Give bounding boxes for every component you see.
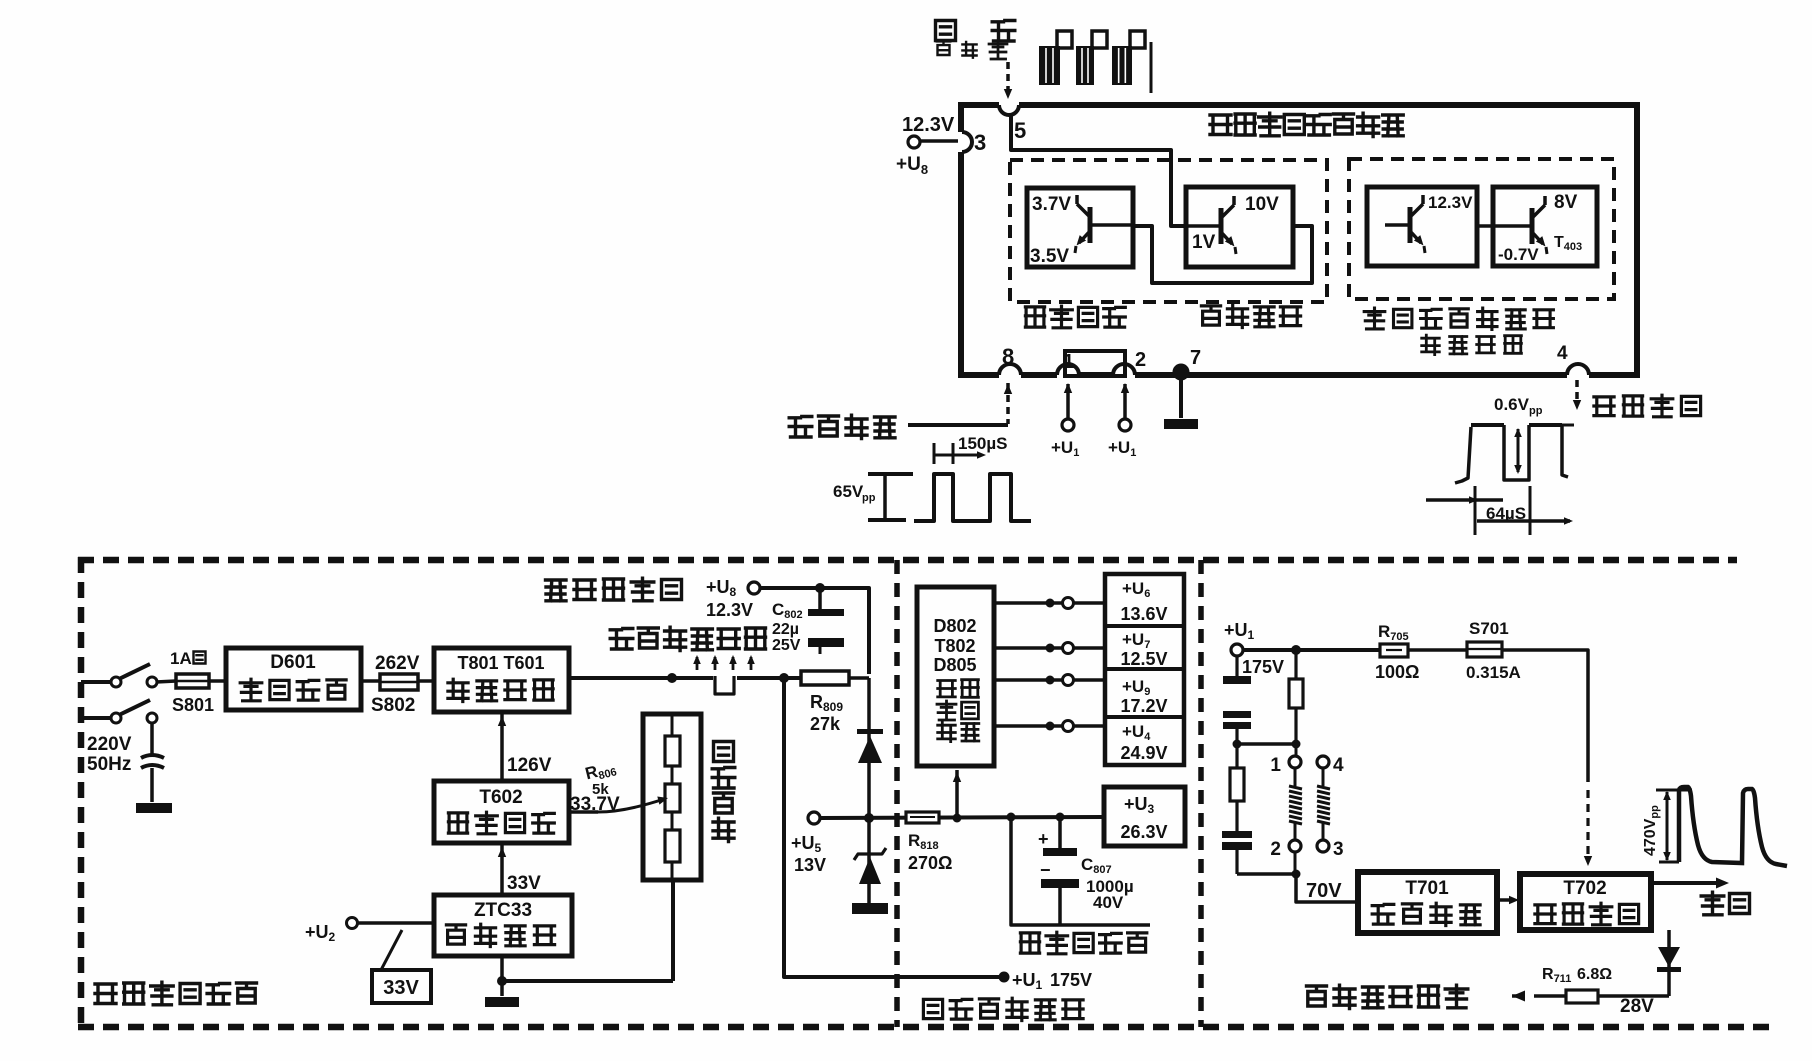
block ZTC33 standard voltage 标准电压: [434, 895, 572, 956]
label (chinese): 整场扫描 (field scan): [789, 415, 895, 438]
wire line flyback pulse input: [1011, 817, 1150, 925]
svg-text:28V: 28V: [1620, 996, 1654, 1017]
svg-text:10V: 10V: [1245, 194, 1279, 215]
svg-text:24.9V: 24.9V: [1120, 743, 1167, 763]
waveform: line drive 0.6Vpp 64uS: [1426, 425, 1574, 535]
label (chinese): 行推动级 (line driver stage): [1372, 903, 1480, 925]
block: sync separator transistor 同步分离: [1186, 187, 1293, 267]
wire to sampling network bottom: [502, 979, 673, 983]
wire fuse to D601: [209, 679, 226, 683]
svg-text:4: 4: [1557, 343, 1568, 364]
svg-text:8V: 8V: [1554, 192, 1578, 213]
wire: field scan into pin 8: [1006, 383, 1010, 424]
svg-text:−: −: [1040, 860, 1051, 880]
svg-text:40V: 40V: [1093, 893, 1124, 912]
wire T602 output to potentiometer wiper: [569, 810, 598, 814]
label (chinese): 电抗管控制式行 (reactance tube controlled line): [1364, 308, 1553, 329]
wire: pin 4 to line drive: [1575, 380, 1579, 402]
ground (mains filter): [136, 803, 172, 813]
pin 3 notch: [958, 132, 966, 152]
svg-text:0.6V: 0.6V: [1494, 395, 1530, 414]
label (chinese): 视: [936, 21, 956, 41]
wires D802 to voltage outputs: [994, 601, 1062, 605]
label (chinese): 并联稳压电路 (shunt regulator circuit): [923, 998, 1083, 1020]
tap arrows 偏转线圈抽头: [696, 657, 699, 670]
resistor R705 100ohm: [1380, 644, 1408, 657]
label box 33V with pointer: [372, 970, 431, 1003]
pin 5 notch: [999, 101, 1019, 109]
wire flyback rectified output 28V: [1598, 994, 1669, 998]
fuse S701 0.315A: [1467, 642, 1502, 657]
switch S801 upper pole: [81, 680, 112, 684]
label (chinese): 偏转线圈抽头 (deflection coil taps): [610, 627, 765, 650]
sampling circuit box 取样电路: [643, 714, 701, 880]
svg-text:D802: D802: [933, 616, 976, 636]
waveform: field scan pulses 65Vpp 150uS: [833, 434, 1031, 521]
svg-text:T602: T602: [479, 787, 522, 808]
ground below zener: [852, 903, 888, 914]
wire: pin5 to sync separator: [1011, 116, 1186, 226]
label (chinese): 比较放大 (compare amplify): [448, 812, 554, 834]
svg-text:T801 T601: T801 T601: [457, 653, 544, 673]
wire T602 to ZTC33 with 33V: [500, 845, 504, 895]
dashed frame: series regulator section border: [78, 557, 85, 1027]
dashed sub-box: reactance-tube controlled line oscillator: [1349, 159, 1614, 299]
svg-text:13.6V: 13.6V: [1120, 604, 1167, 624]
label (chinese): 稳压: [937, 701, 978, 720]
svg-text:220V: 220V: [87, 734, 132, 755]
svg-text:1A: 1A: [170, 649, 192, 668]
block: sync amplifier transistor 同步放大: [1027, 188, 1133, 267]
capacitor C802 22u 25V: [818, 590, 822, 609]
block: oscillator transistor T403: [1493, 187, 1597, 266]
capacitor (ladder top left): [1235, 656, 1238, 676]
potentiometer (sampling): [665, 784, 680, 812]
svg-text:2: 2: [1135, 349, 1146, 371]
svg-text:13V: 13V: [794, 855, 826, 875]
svg-text:17.2V: 17.2V: [1120, 696, 1167, 716]
label (chinese): 电源调整 (power adjust): [448, 679, 553, 701]
svg-text:1: 1: [1270, 755, 1281, 776]
svg-text:2: 2: [1270, 839, 1281, 860]
svg-text:175V: 175V: [1242, 657, 1284, 677]
svg-text:150µS: 150µS: [958, 434, 1008, 453]
label (chinese): 串联稳定电路 (series regulator circuit): [95, 982, 257, 1005]
pin 4 notch: [1567, 371, 1589, 379]
svg-text:33V: 33V: [507, 873, 541, 894]
wire: sync amp output loop to separator right side: [1133, 226, 1312, 283]
svg-text:8: 8: [1002, 344, 1014, 369]
terminal 1 and tuning coil: [1295, 744, 1298, 756]
svg-text:T701: T701: [1405, 878, 1449, 899]
wire T701 to T702: [1497, 898, 1513, 902]
block T801 T601 power adjust 电源调整: [434, 648, 569, 712]
wire fuse to line output stage: [1502, 650, 1588, 782]
svg-text:3: 3: [974, 130, 986, 155]
svg-text:12.3V: 12.3V: [706, 600, 753, 620]
resistor R809 27k: [779, 673, 789, 683]
block D802 T802 D805 shunt regulator 并联稳压电路: [917, 587, 994, 766]
svg-text:D601: D601: [270, 652, 316, 673]
wire +U1 175V feed: [784, 678, 999, 977]
svg-text:270Ω: 270Ω: [908, 853, 952, 873]
wire +U8 down right side: [760, 588, 869, 674]
svg-text:0.315A: 0.315A: [1466, 663, 1521, 682]
svg-text:S801: S801: [172, 695, 214, 715]
diode (flyback rectifier): [1667, 930, 1671, 996]
terminal +U5 13V: [808, 812, 820, 824]
capacitor C807 1000u 40V: [1058, 817, 1062, 848]
diode (to +U5 rail): [867, 678, 871, 818]
svg-text:4: 4: [1333, 755, 1344, 776]
component box between pins 1 and 2: [1065, 351, 1125, 376]
wire rail up into D802: [955, 770, 959, 818]
wire to fuse S701: [1408, 648, 1467, 652]
svg-text:12.5V: 12.5V: [1120, 649, 1167, 669]
terminal +U1 below pin 1: [1066, 384, 1070, 420]
block T602 compare amplifier 比较放大: [434, 781, 569, 843]
svg-text:12.3V: 12.3V: [902, 114, 955, 136]
label (chinese): 标准电压 (standard voltage): [446, 924, 554, 946]
terminal 2: [1289, 840, 1301, 852]
junction +U5: [864, 813, 874, 823]
wire +U1 rail: [1243, 648, 1380, 652]
wire to T701 70V: [1237, 872, 1296, 876]
wire: main board outline 行扫描电路组件板: [961, 105, 1637, 375]
terminal 4 and coil: [1317, 756, 1329, 768]
block +U3 26.3V: [1104, 787, 1185, 846]
waveform 470Vpp flyback pulses: [1642, 787, 1787, 866]
pin 7 terminal: [1173, 364, 1190, 381]
capacitor on mains: [150, 723, 154, 754]
dashed divider: shunt regulator section right: [1198, 560, 1204, 1027]
label (chinese): 同步分离 (sync separate): [1201, 305, 1300, 327]
label (chinese): 同步放大 (sync amplify): [1025, 306, 1125, 328]
capacitor (ladder bottom left): [1222, 831, 1252, 838]
resistor (ladder left lower): [1235, 744, 1238, 768]
svg-text:100Ω: 100Ω: [1375, 662, 1419, 682]
svg-text:175V: 175V: [1050, 970, 1092, 990]
block T701 line driver 行推动级: [1358, 872, 1497, 933]
pin 1 notch: [1057, 371, 1079, 379]
terminal 3: [1317, 840, 1329, 852]
svg-text:33V: 33V: [383, 977, 419, 999]
svg-text:22µ: 22µ: [772, 621, 799, 638]
wire +U5 rail to +U3: [820, 817, 1104, 818]
svg-text:126V: 126V: [507, 755, 552, 776]
svg-text:26.3V: 26.3V: [1120, 822, 1167, 842]
fuse S802: [361, 679, 380, 683]
svg-text:262V: 262V: [375, 653, 420, 674]
dashed divider: shunt regulator section left: [894, 560, 900, 1027]
svg-text:T702: T702: [1563, 878, 1606, 899]
svg-text:6.8Ω: 6.8Ω: [1577, 966, 1612, 983]
wire T801 to T602 with 126V: [500, 714, 504, 781]
pin 8 notch: [999, 371, 1021, 379]
ground below ZTC33: [485, 997, 519, 1007]
resistor (ladder mid): [1294, 650, 1297, 679]
wire: between oscillator transistors: [1477, 224, 1493, 228]
pin 2 notch: [1113, 371, 1135, 379]
svg-text:S701: S701: [1469, 619, 1509, 638]
block: oscillator transistor 1: [1367, 187, 1477, 266]
svg-text:D805: D805: [933, 655, 976, 675]
wire ZTC33 to ground and sampling chain: [500, 956, 504, 981]
dashed sub-box: sync amplifier + separator: [1010, 160, 1327, 302]
svg-text:25V: 25V: [772, 637, 801, 654]
svg-text:27k: 27k: [810, 714, 841, 734]
label (chinese): 输出 (output): [1701, 892, 1749, 915]
resistor (sampling lower): [665, 830, 680, 862]
svg-text:7: 7: [1190, 347, 1201, 369]
label (chinese): 电路: [938, 722, 979, 742]
zener diode to ground: [867, 818, 871, 903]
label (chinese): 行逆程整流出 (line flyback rectified output): [1307, 985, 1468, 1008]
svg-text:S802: S802: [371, 695, 415, 716]
terminal +U1 below pin 2: [1123, 384, 1127, 420]
svg-text:ZTC33: ZTC33: [474, 900, 532, 921]
svg-text:50Hz: 50Hz: [87, 754, 131, 775]
label R806 5k 33.7V with wiper arrow: [583, 757, 618, 785]
block D601 rectifier-filter 整流滤波: [226, 648, 361, 710]
resistor R818 270ohm: [906, 812, 939, 823]
resistor R 6.8ohm: [1566, 990, 1598, 1003]
label (chinese): 行逆程脉冲 (line flyback pulse): [1020, 932, 1146, 954]
IF filter cans (comb symbols): [1039, 31, 1151, 93]
output blocks +U6 +U7 +U9 +U4: [1105, 574, 1184, 765]
svg-text:+: +: [1038, 829, 1049, 849]
svg-text:12.3V: 12.3V: [1428, 193, 1473, 212]
wire: dashed arrow video input into pin 5: [1006, 62, 1010, 90]
junction dots on +U3 rail: [1007, 813, 1016, 822]
ground below pin 7: [1179, 380, 1183, 418]
label (chinese): 并联: [938, 680, 979, 698]
wire output arrow 输出: [1651, 881, 1718, 885]
label (chinese): 至行振荡器 (to line oscillator): [546, 578, 682, 601]
svg-text:5: 5: [1014, 118, 1026, 143]
svg-text:3.7V: 3.7V: [1032, 194, 1071, 215]
deflection yoke tap symbol: [715, 676, 734, 694]
resistor (sampling upper): [665, 736, 680, 766]
label (chinese): 整流滤波 (rectify filter): [240, 679, 346, 701]
wire T801 output to deflection taps: [569, 676, 713, 680]
label (chinese, vertical): 取样电路 (sampling circuit): [712, 742, 735, 842]
svg-text:1V: 1V: [1192, 232, 1216, 253]
label (chinese): 行扫描电路组件板 (line scan circuit assembly board): [1210, 113, 1403, 136]
svg-text:65V: 65V: [833, 482, 864, 501]
label (chinese): 至行推动 (to line drive): [1594, 395, 1701, 417]
block T702 line output 行输出级: [1520, 874, 1651, 930]
svg-text:70V: 70V: [1306, 880, 1342, 902]
svg-text:-0.7V: -0.7V: [1498, 245, 1539, 264]
svg-text:pp: pp: [1529, 405, 1543, 417]
label (chinese): 行输出级 (line output stage): [1535, 903, 1639, 925]
switch lower pole 220V 50Hz: [81, 716, 112, 720]
label (chinese): 振荡电路 (oscillator circuit): [1422, 335, 1522, 355]
svg-text:3.5V: 3.5V: [1030, 246, 1069, 267]
svg-text:3: 3: [1333, 839, 1344, 860]
svg-text:pp: pp: [862, 492, 876, 504]
svg-text:T802: T802: [934, 636, 975, 656]
